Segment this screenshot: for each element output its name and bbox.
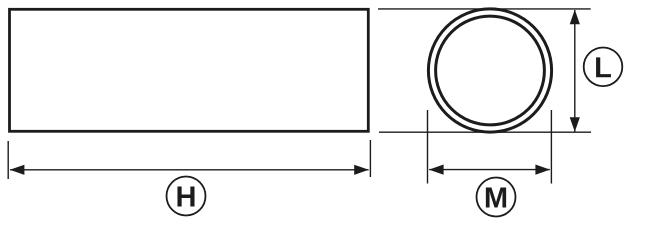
tube side view rectangle — [10, 9, 369, 131]
dimension M left extension line — [427, 110, 429, 184]
tube end view inner circle — [436, 16, 545, 125]
label circle L — [584, 48, 623, 87]
label text L — [596, 57, 611, 77]
label text H — [177, 187, 194, 207]
top tangent extension line (L top) — [378, 8, 591, 10]
dimension L top arrowhead — [570, 10, 580, 25]
dimension M left arrowhead — [429, 165, 444, 175]
dimension H right arrowhead — [354, 165, 369, 175]
dimension M line — [429, 169, 550, 171]
label text M — [486, 188, 506, 208]
tube end view outer circle — [428, 9, 551, 132]
dimension M right arrowhead — [535, 165, 550, 175]
label circle M — [477, 178, 516, 217]
label circle H — [167, 177, 206, 216]
dimension L bottom arrowhead — [570, 117, 580, 132]
dimension H left extension line — [7, 141, 9, 179]
dimension H left arrowhead — [10, 165, 25, 175]
dimension H right extension line — [369, 140, 371, 177]
dimension M right extension line — [550, 110, 552, 184]
dimension L line — [574, 10, 576, 132]
bottom tangent extension line (L bottom) — [379, 131, 591, 133]
dimension H line — [10, 169, 369, 171]
